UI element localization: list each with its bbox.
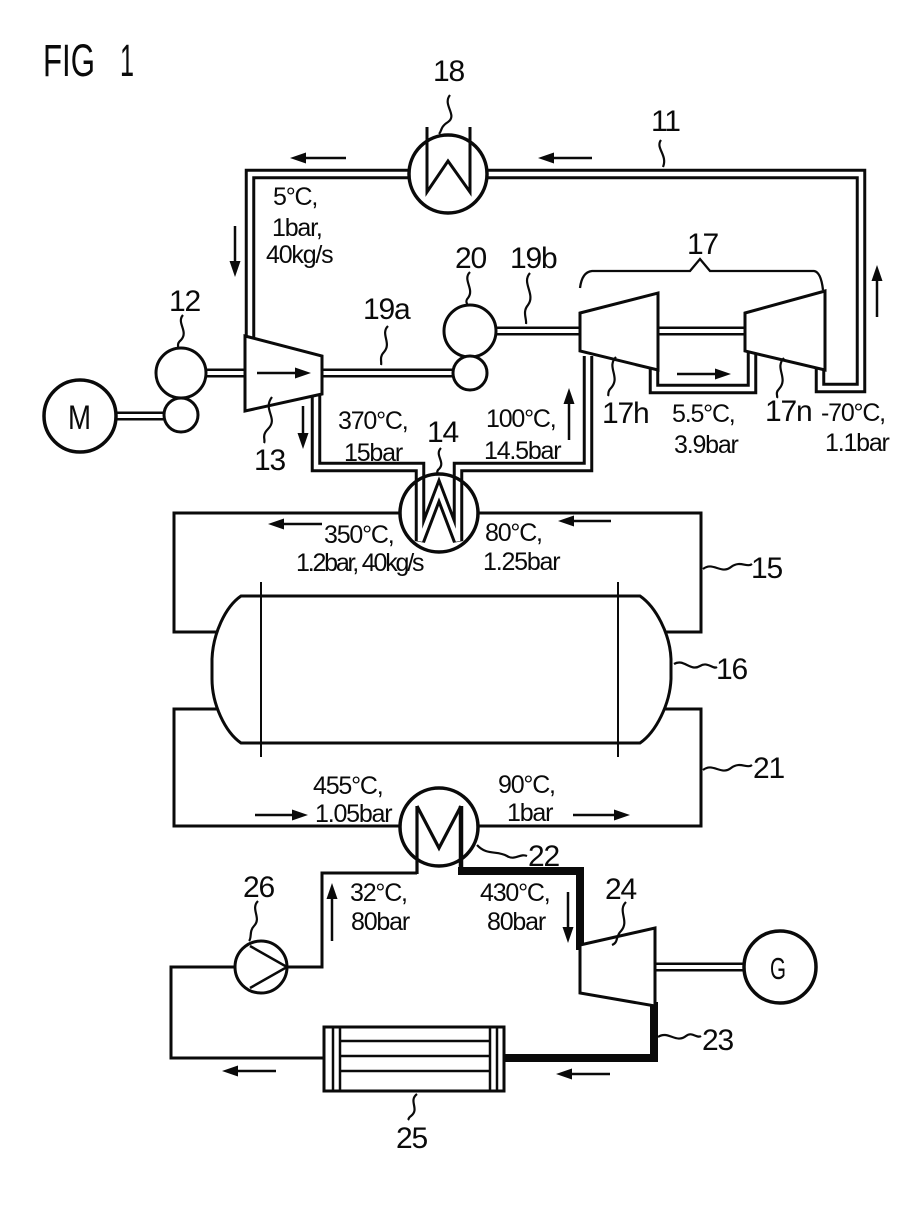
compressor 13: [245, 336, 322, 411]
arrow up -70C riser: [876, 279, 879, 317]
svg-text:32°C,: 32°C,: [350, 879, 407, 907]
tank 16 (storage vessel): [212, 596, 671, 743]
leader 21: [703, 765, 752, 771]
shaft: gear 12 to compressor 13: [204, 369, 247, 378]
svg-text:11: 11: [651, 105, 680, 138]
svg-text:FIG: FIG: [43, 35, 95, 86]
gear 12 small circle: [164, 398, 198, 432]
arrow up 32C pipe: [331, 897, 334, 941]
motor M circle: [44, 380, 116, 452]
svg-text:14: 14: [427, 416, 458, 449]
leader 23: [658, 1034, 701, 1038]
mask circle for heat exchanger 22: [400, 788, 478, 866]
box 21 (lower heat loop): [174, 709, 701, 826]
arrow down compressor outlet: [302, 406, 305, 435]
svg-text:M: M: [68, 399, 91, 437]
pipe 11: turbine 17n outlet up and across to HX18: [487, 174, 861, 388]
svg-text:20: 20: [455, 242, 486, 275]
leader 20: [466, 272, 470, 304]
tank 16 seam line left: [260, 582, 262, 757]
arrow right box21 left: [255, 814, 294, 817]
svg-text:5°C,: 5°C,: [273, 183, 317, 211]
svg-text:80°C,: 80°C,: [485, 519, 542, 547]
leader 19a: [381, 326, 388, 365]
leader 25: [408, 1094, 417, 1120]
svg-text:23: 23: [702, 1024, 733, 1057]
arrow up 100C pipe: [568, 402, 571, 440]
svg-text:15bar: 15bar: [344, 439, 403, 467]
shaft 19b: gear 20 to turbine 17h: [494, 327, 582, 336]
arrow left pipe 23: [570, 1073, 610, 1076]
arrow left right of HX18: [552, 157, 592, 160]
arrow left box15 left: [282, 523, 322, 526]
svg-text:80bar: 80bar: [351, 908, 410, 936]
svg-text:17h: 17h: [602, 397, 648, 430]
svg-text:1.1bar: 1.1bar: [825, 429, 890, 457]
svg-text:40kg/s: 40kg/s: [266, 241, 333, 269]
svg-text:1bar,: 1bar,: [272, 214, 322, 242]
tank 16 seam line right: [617, 582, 619, 757]
leader 15: [703, 564, 752, 570]
svg-text:26: 26: [243, 871, 274, 904]
leader 11: [659, 140, 664, 167]
svg-text:90°C,: 90°C,: [498, 771, 555, 799]
svg-text:1bar: 1bar: [507, 799, 553, 827]
turbine 17h: [580, 293, 658, 370]
svg-text:350°C,: 350°C,: [324, 521, 394, 549]
shaft: motor M to gear 12: [116, 412, 166, 421]
brace 17: [580, 259, 823, 290]
svg-text:18: 18: [433, 55, 464, 88]
arrow right inside compressor: [257, 372, 297, 375]
svg-text:14.5bar: 14.5bar: [484, 437, 561, 465]
shaft: turbine 17h to 17n: [656, 327, 747, 336]
turbine 24: [580, 928, 655, 1006]
leader 22: [477, 845, 527, 858]
svg-text:1.2bar, 40kg/s: 1.2bar, 40kg/s: [296, 549, 424, 577]
leader 26: [249, 901, 258, 941]
leader 16: [674, 662, 717, 667]
leader 24: [612, 902, 626, 945]
svg-text:16: 16: [716, 653, 747, 686]
svg-text:G: G: [770, 951, 786, 986]
svg-text:19a: 19a: [363, 293, 411, 326]
leader 13: [264, 397, 272, 443]
svg-text:22: 22: [528, 840, 559, 873]
arrow left condenser outlet: [236, 1070, 276, 1073]
svg-text:370°C,: 370°C,: [338, 407, 408, 435]
svg-text:12: 12: [169, 285, 200, 318]
LEADER SQUIGGLES: [178, 95, 784, 1120]
leader 14: [437, 448, 441, 474]
gear 20 large circle: [444, 305, 496, 357]
steam pipe 23 thick: turbine 24 to condenser 25: [498, 1002, 654, 1058]
svg-text:1.25bar: 1.25bar: [483, 548, 560, 576]
leader 17n: [777, 358, 784, 398]
svg-text:24: 24: [605, 873, 636, 906]
generator G circle: [744, 931, 816, 1003]
svg-text:455°C,: 455°C,: [313, 772, 383, 800]
svg-text:1: 1: [120, 35, 134, 86]
heat exchanger 22 circle: [400, 788, 478, 866]
ARROWS: [222, 153, 883, 1080]
turbine 17n: [745, 291, 825, 370]
svg-text:430°C,: 430°C,: [480, 879, 550, 907]
shaft: turbine 24 to generator G: [653, 963, 746, 972]
steam pipe: pump 26 to condenser 25: [171, 967, 330, 1058]
svg-text:17: 17: [687, 228, 718, 261]
pipe: compressor outlet through HX14 W-coil to turbine 17h inlet: [316, 356, 588, 541]
leader 17h: [608, 357, 616, 396]
heat exchanger 22 M-coil: [415, 806, 418, 874]
arrow down 430C pipe: [567, 892, 570, 929]
pipe: HX18 to compressor 13 inlet (5C 1bar): [250, 174, 409, 342]
shaft 19a: compressor 13 to gear 20: [320, 369, 454, 378]
arrow down 5C pipe: [234, 226, 237, 263]
arrow left top-left segment: [304, 157, 346, 160]
heat exchanger 14 circle: [400, 474, 478, 552]
svg-text:25: 25: [396, 1122, 427, 1155]
svg-text:15: 15: [751, 552, 782, 585]
arrow left box15 right: [572, 520, 611, 523]
svg-text:-70°C,: -70°C,: [821, 399, 885, 427]
steam pipe thick: HX22 right leg to turbine 24 (430C 80bar): [458, 871, 580, 950]
svg-text:21: 21: [753, 752, 784, 785]
leader 18: [439, 95, 451, 134]
steam pipe: HX22 left leg to pump 26 (32C 80bar): [286, 873, 417, 967]
svg-text:17n: 17n: [765, 395, 811, 428]
svg-text:5.5°C,: 5.5°C,: [672, 400, 735, 428]
condenser 25: [324, 1027, 504, 1091]
mask circle for heat exchanger 14: [400, 474, 478, 552]
leader 12: [178, 315, 184, 349]
box 15 (upper heat loop): [174, 513, 701, 632]
gear 20 small circle: [453, 356, 487, 390]
svg-text:100°C,: 100°C,: [486, 405, 556, 433]
svg-text:80bar: 80bar: [487, 908, 546, 936]
arrow right box21 right: [573, 814, 616, 817]
svg-text:1.05bar: 1.05bar: [315, 800, 392, 828]
pipe: U-duct 17h outlet to 17n inlet (5.5C 3.9bar): [654, 348, 752, 389]
svg-text:13: 13: [254, 444, 285, 477]
leader 19b: [525, 273, 530, 324]
heat exchanger 18 internal W: [427, 127, 470, 192]
gear 12 large circle: [156, 348, 206, 398]
arrow right U-duct: [677, 373, 717, 376]
svg-text:19b: 19b: [510, 242, 557, 275]
pump 26: [235, 941, 287, 993]
heat exchanger 18 circle: [409, 135, 487, 213]
svg-text:3.9bar: 3.9bar: [674, 431, 739, 459]
